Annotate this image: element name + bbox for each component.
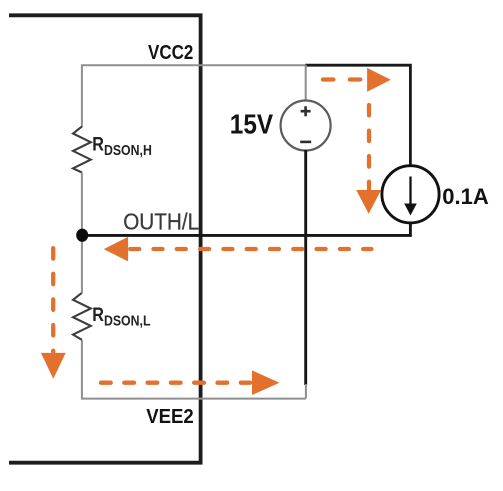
current path arrow (OUTH/L, leftward): dashed segment: [130, 247, 371, 251]
svg-text:VCC2: VCC2: [148, 41, 193, 64]
current source I1 circle: [382, 166, 439, 223]
current source internal arrow: [409, 177, 411, 207]
svg-text:VEE2: VEE2: [146, 406, 194, 428]
current path arrow (left, downward): head: [41, 353, 66, 379]
current path arrow (top, rightward): dashed segment: [323, 77, 363, 81]
resistor R_DSON,L (zigzag): [73, 293, 91, 340]
svg-text:15V: 15V: [230, 108, 274, 140]
label R_DSON,H: [92, 133, 152, 158]
voltage source plus sign: [301, 106, 311, 116]
svg-text:RDSON,L: RDSON,L: [92, 304, 150, 329]
svg-text:0.1A: 0.1A: [442, 184, 489, 209]
wire (gray) node to R_DSON,L top: [81, 236, 83, 294]
wire (black) voltage source bottom down toward VEE2 rail: [304, 150, 307, 385]
svg-text:OUTH/L: OUTH/L: [123, 208, 199, 234]
label VEE2: [146, 406, 194, 428]
label 15V: [230, 108, 274, 140]
wire OUTH/L rail (black) to current source bottom: [82, 224, 410, 235]
resistor R_DSON,H (zigzag): [73, 127, 91, 173]
label OUTH/L: [123, 208, 199, 234]
label VCC2: [148, 41, 193, 64]
wire VCC2 rail (gray) from left rail corner to voltage source top node: [82, 65, 306, 127]
current path arrow (bottom, rightward): dashed segment: [101, 381, 250, 385]
wire VCC2 rail black segment to current source top: [305, 65, 410, 166]
node OUTH/L junction dot: [76, 229, 88, 242]
current path arrow (top, rightward): head: [367, 68, 391, 92]
current path arrow (left, downward): dashed segment: [51, 248, 55, 352]
wire (gray) R_DSON,H bottom to OUTH/L node: [81, 173, 83, 236]
current path arrow (right, downward): dashed segment: [367, 105, 371, 189]
voltage source V1 circle: [281, 101, 331, 151]
svg-text:RDSON,H: RDSON,H: [92, 133, 152, 158]
device outline (thick black boundary box, open at left): [9, 15, 201, 462]
current path arrow (OUTH/L, leftward): head: [104, 237, 128, 262]
voltage source minus sign: [300, 141, 311, 144]
wire VEE2 rail (gray): [82, 340, 306, 399]
label R_DSON,L: [92, 304, 150, 329]
voltage source V1 stem (gray): [305, 65, 307, 101]
current path arrow (bottom, rightward): head: [252, 370, 280, 395]
wire (gray) joining to VEE2 rail: [305, 384, 307, 399]
current path arrow (right, downward): head: [356, 190, 381, 214]
